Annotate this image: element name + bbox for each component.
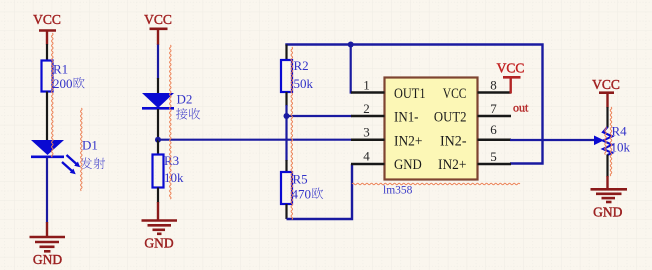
svg-text:10k: 10k xyxy=(164,170,184,185)
ERC squiggle along R2/R5 wire xyxy=(291,47,293,220)
ERC squiggle along R1 wire xyxy=(52,33,54,157)
svg-text:VCC: VCC xyxy=(497,61,525,76)
svg-text:6: 6 xyxy=(490,122,497,137)
op-amp U1 body xyxy=(385,78,478,180)
ground GND (col 2) xyxy=(142,202,178,251)
svg-text:R3: R3 xyxy=(164,153,179,168)
pin 8 stub xyxy=(478,91,512,94)
pin 5 stub xyxy=(478,163,512,166)
svg-text:1: 1 xyxy=(363,78,370,93)
power VCC (col 1) xyxy=(33,12,61,45)
svg-text:out: out xyxy=(513,101,529,115)
svg-text:R1: R1 xyxy=(53,62,68,77)
wire D2 to junction xyxy=(157,109,159,140)
svg-text:IN2+: IN2+ xyxy=(394,133,423,149)
wire rail to pin 1 xyxy=(351,45,352,93)
svg-text:R2: R2 xyxy=(294,58,309,73)
pin 2 stub xyxy=(351,115,385,118)
wire R2 to junction xyxy=(285,92,287,106)
svg-text:R4: R4 xyxy=(612,124,628,139)
svg-text:GND: GND xyxy=(593,205,622,220)
wire VCC to R1 xyxy=(46,44,48,61)
pin 1 stub xyxy=(351,91,385,94)
power VCC (col 2) xyxy=(144,12,172,45)
wire R5 to bottom rail xyxy=(285,204,287,219)
node R2/pin2 junction xyxy=(284,113,290,119)
svg-text:IN2-: IN2- xyxy=(440,133,467,149)
wire VCC to R4 xyxy=(606,107,608,128)
wire junction to R3 xyxy=(157,140,159,155)
ground GND (col 1) xyxy=(30,222,66,267)
node D2/R3 junction xyxy=(155,137,161,143)
svg-text:2: 2 xyxy=(363,101,370,116)
resistor R5 xyxy=(281,172,323,205)
wire R1 to D1 xyxy=(46,92,48,142)
pin 4 stub xyxy=(351,163,385,166)
resistor R1 xyxy=(42,61,85,92)
wire D2 node to pin 3 xyxy=(158,139,352,141)
photodiode D2 xyxy=(142,92,200,120)
svg-text:VCC: VCC xyxy=(33,12,61,27)
LED D1 xyxy=(31,138,105,175)
svg-text:50k: 50k xyxy=(294,76,314,91)
pin 6 stub xyxy=(478,138,512,141)
wire bottom rail to pin 4 xyxy=(287,164,353,219)
svg-text:VCC: VCC xyxy=(592,77,620,92)
wire pin 6 to R4 wiper xyxy=(510,139,595,141)
ERC squiggle right of R4 xyxy=(610,107,612,176)
svg-text:3: 3 xyxy=(363,125,370,140)
potentiometer R4 xyxy=(603,124,631,156)
node rail/pin1 junction xyxy=(348,42,354,48)
svg-text:8: 8 xyxy=(490,78,497,93)
svg-text:GND: GND xyxy=(144,236,173,251)
svg-text:lm358: lm358 xyxy=(383,185,413,197)
label jie-shou (receive) xyxy=(176,108,188,120)
svg-text:5: 5 xyxy=(490,149,497,164)
svg-text:OUT1: OUT1 xyxy=(394,86,426,102)
svg-text:GND: GND xyxy=(394,157,422,173)
wire top rail xyxy=(287,45,543,164)
wiper arrow of R4 xyxy=(594,136,604,146)
svg-text:4: 4 xyxy=(363,149,370,164)
ERC squiggle left of R4 xyxy=(605,127,607,155)
svg-text:IN1-: IN1- xyxy=(394,110,419,126)
svg-text:7: 7 xyxy=(490,101,497,116)
pin 3 stub xyxy=(351,138,385,141)
ERC squiggle under IC xyxy=(352,183,520,185)
wire junction down to R5 xyxy=(285,116,287,161)
ground GND (col 4) xyxy=(591,176,628,220)
wire junction to pin 2 xyxy=(287,115,353,117)
ERC squiggle right of D1 xyxy=(81,108,83,191)
svg-text:VCC: VCC xyxy=(144,12,172,27)
wire R3 to GND xyxy=(157,188,159,204)
power VCC (pin 8) xyxy=(497,61,525,94)
svg-text:VCC: VCC xyxy=(443,86,467,102)
svg-text:D1: D1 xyxy=(82,138,98,153)
svg-text:200: 200 xyxy=(53,76,73,91)
wire rail to R2 xyxy=(285,45,287,62)
ERC squiggle along D2/R3 wire xyxy=(170,45,172,199)
wire D1 to GND xyxy=(46,157,48,223)
resistor R2 xyxy=(281,58,314,92)
svg-text:R5: R5 xyxy=(293,172,308,187)
svg-text:OUT2: OUT2 xyxy=(434,110,467,126)
label fa-she (emit) xyxy=(80,157,92,169)
svg-text:GND: GND xyxy=(33,252,62,267)
pin 7 stub xyxy=(478,115,512,118)
svg-text:10k: 10k xyxy=(611,140,631,155)
svg-text:470: 470 xyxy=(292,187,312,202)
svg-text:IN2+: IN2+ xyxy=(438,157,467,173)
svg-text:D2: D2 xyxy=(177,92,193,107)
power VCC (col 4) xyxy=(592,77,620,108)
wire R4 to GND xyxy=(606,155,608,178)
resistor R3 xyxy=(153,153,185,188)
wire VCC to D2 xyxy=(157,45,159,80)
